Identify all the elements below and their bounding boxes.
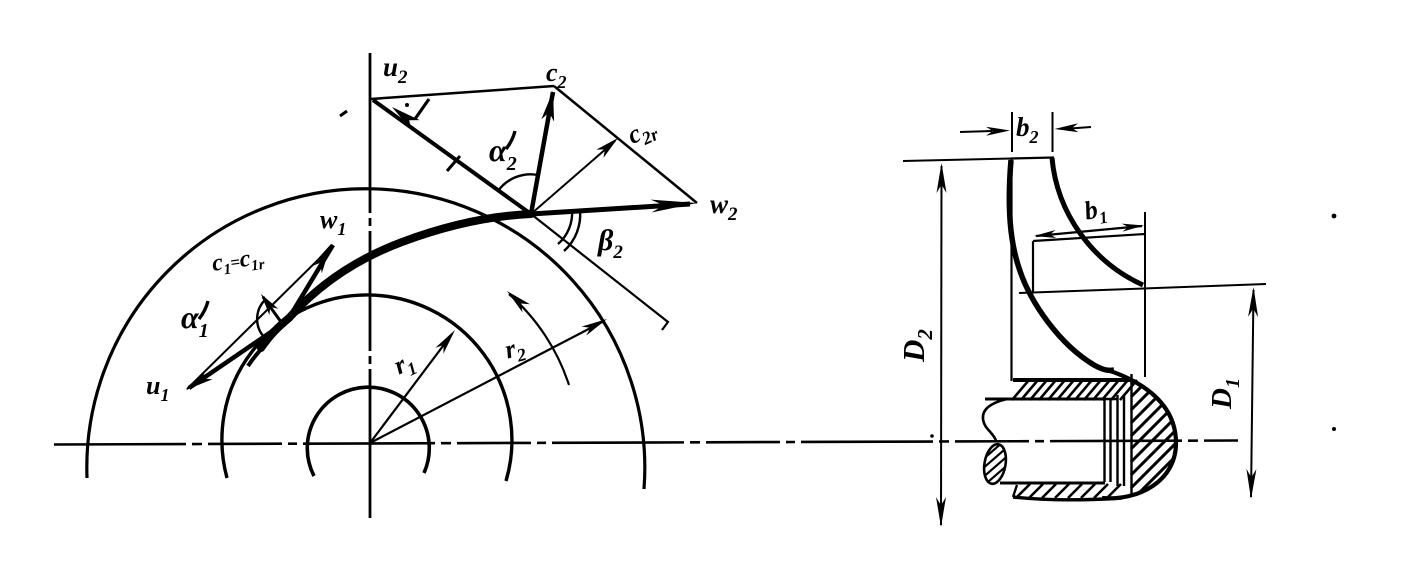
rounded cap outline (bullet nose) — [1096, 367, 1176, 498]
shaft end vertical line 2 — [1109, 400, 1111, 482]
b1 right extension (long vertical) — [1144, 212, 1146, 377]
b2 arrow left — [960, 131, 992, 132]
D2 top extension line — [903, 159, 1011, 162]
b2 extension tick right — [1052, 112, 1054, 152]
alpha1 riser stroke — [199, 301, 208, 319]
alpha2 riser stroke — [506, 131, 515, 149]
shaft end vertical line 1 — [1103, 400, 1105, 482]
shaft break (wavy left end) — [983, 399, 1007, 441]
shaft end vertical line 4 — [1123, 395, 1125, 486]
angle arc alpha1 — [257, 299, 266, 337]
bottom hatched band bottom edge — [1013, 497, 1122, 500]
shaft end vertical line 3 — [1116, 395, 1118, 486]
angle arc alpha2 — [498, 174, 538, 191]
stray dot right — [1332, 427, 1336, 431]
r1 radius arrow — [370, 334, 452, 443]
bottom band hatching — [1016, 484, 1121, 498]
shroud top edge between walls — [1011, 158, 1054, 159]
stray dot above axis — [930, 434, 934, 438]
c1 triangle closing thin line — [187, 245, 333, 389]
vertical axis (dash-dot centerline) — [369, 53, 372, 518]
hub circle — [307, 387, 429, 476]
vector u2 (thick, up-left) — [373, 100, 531, 214]
vector u1 — [189, 321, 287, 388]
shaft top edge — [985, 398, 1104, 401]
blade root thick arc — [248, 342, 268, 366]
b2 extension tick left — [1011, 112, 1013, 152]
b1 dimension line — [1036, 226, 1142, 236]
shaft bottom edge — [1000, 482, 1105, 485]
u2 line extension below P2 — [531, 214, 668, 330]
tick across u2 line — [447, 156, 460, 171]
angle arcs beta2 (double) — [558, 210, 572, 244]
hub flange hatching — [1012, 380, 1137, 400]
eye rectangle top line — [1033, 234, 1145, 241]
back shroud thick S-curve — [1009, 160, 1114, 370]
D1 top extension line — [1019, 284, 1266, 293]
blade (thick curve P1 to P2) — [261, 214, 531, 348]
eye rectangle left line — [1032, 241, 1034, 293]
r1 circle — [222, 295, 512, 481]
vector w1 — [287, 245, 333, 321]
r2 radius arrow — [370, 321, 604, 443]
small mark near u2 arrowhead — [415, 99, 429, 119]
vector c1 (radial, short) — [263, 297, 284, 326]
r2 circle — [87, 189, 645, 489]
vector c2r (thin radial component) — [531, 141, 615, 214]
D2 dimension line — [940, 166, 943, 525]
triangle top side u2tip-c2 — [371, 86, 554, 99]
triangle right side c2-w2tip — [554, 86, 697, 203]
front shroud thick curve — [1052, 158, 1143, 285]
hub flange bottom edge — [1014, 398, 1117, 401]
vector w2 (thick) — [531, 204, 690, 214]
stray dot upper right — [1332, 214, 1337, 219]
hub flange top edge (thick) — [1013, 378, 1130, 382]
bottom hatched band left edge — [1013, 485, 1017, 497]
cap inner vertical — [1130, 374, 1132, 495]
rotation direction curved arrow — [509, 294, 569, 385]
vector c2 (thick, up) — [531, 92, 553, 214]
b2 arrow right — [1070, 127, 1091, 129]
D1 dimension line — [1251, 290, 1254, 497]
stray mark left of u2 label — [340, 111, 347, 116]
impeller back disk line (thin vertical) — [1010, 158, 1012, 381]
horizontal axis (dash-dot centerline) — [54, 441, 1238, 445]
